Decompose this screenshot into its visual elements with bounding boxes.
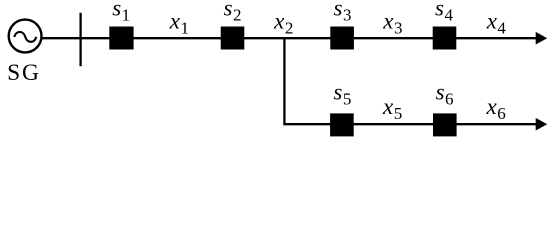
svg-text:x4: x4 bbox=[486, 9, 507, 38]
svg-text:x3: x3 bbox=[382, 9, 402, 38]
svg-text:s4: s4 bbox=[435, 0, 453, 25]
svg-text:x6: x6 bbox=[486, 94, 506, 123]
svg-text:s5: s5 bbox=[333, 79, 351, 108]
svg-text:SG: SG bbox=[7, 60, 41, 86]
svg-text:s2: s2 bbox=[224, 0, 242, 25]
svg-text:x5: x5 bbox=[382, 94, 402, 123]
svg-text:x2: x2 bbox=[273, 9, 293, 38]
svg-text:s1: s1 bbox=[112, 0, 130, 25]
svg-text:s3: s3 bbox=[334, 0, 352, 25]
svg-text:x1: x1 bbox=[169, 9, 189, 38]
svg-text:s6: s6 bbox=[436, 79, 454, 108]
